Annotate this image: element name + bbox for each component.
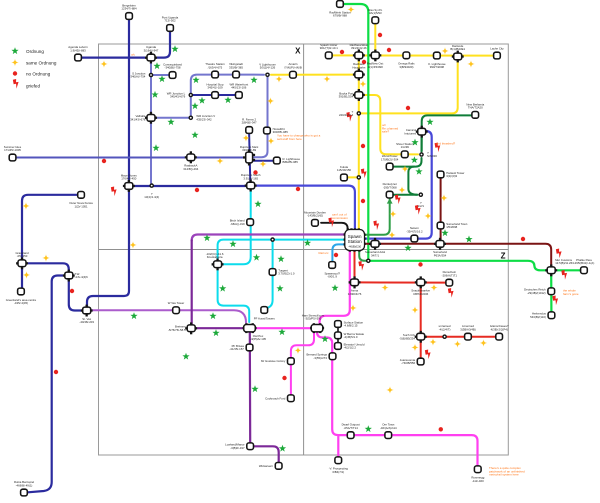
svg-text:345/41/-109: 345/41/-109	[207, 86, 223, 90]
wire: dark green line New Brefamia west then south to Camicol	[422, 115, 472, 151]
legend	[26, 49, 57, 89]
wire: navy line R Farms 2 through Rupinum Mani to Rupinum South	[249, 133, 250, 182]
wire: magenta line Dwarf Outpost and Ore Town east to Rosenegg	[338, 435, 477, 465]
station Wurst/Tower	[381, 154, 399, 170]
junction node on yellow line at Kulula	[357, 175, 362, 180]
svg-text:sell-stuff from here: sell-stuff from here	[277, 137, 302, 141]
wire: cyan line Rupinum South south through Birch Island to Knockaberia	[222, 190, 251, 265]
wire: cyan line Spawn Station west through Knockaberia to Owl Pex	[218, 240, 345, 322]
svg-text:griefed: griefed	[26, 84, 40, 89]
svg-text:990/7/2008: 990/7/2008	[430, 65, 445, 69]
junction node on cyan branch	[270, 237, 275, 242]
svg-text:-3(5)/P5/-595: -3(5)/P5/-595	[305, 317, 322, 321]
station Nelson	[406, 226, 423, 242]
svg-text:-40/48/-203: -40/48/-203	[79, 320, 94, 324]
station Agenda Leborn	[68, 45, 88, 61]
station New Brefamia	[466, 102, 484, 118]
station WR Junction L	[167, 91, 193, 98]
station Summer Isles	[4, 145, 22, 161]
station PF Brissa	[229, 344, 253, 351]
station Knockaberia	[206, 252, 224, 270]
svg-text:3(1)/(0)3: 3(1)/(0)3	[446, 174, 457, 178]
station Sumerland Town	[437, 222, 468, 229]
svg-text:commission: commission	[332, 216, 348, 220]
svg-text:-3(B)0/-197: -3(B)0/-197	[230, 446, 245, 450]
Ordnung markers (green stars)	[11, 45, 472, 451]
svg-text:435/23/-342: 435/23/-342	[196, 117, 212, 121]
no Ordnung markers (red dots)	[13, 33, 525, 432]
station Theatre Station	[205, 62, 225, 78]
svg-text:Z: Z	[501, 252, 506, 261]
wire: yellow line V Lighthouse to Radhaus Hausbahn	[271, 74, 356, 76]
station RaabackA	[183, 151, 198, 171]
svg-text:-340(A)/-754: -340(A)/-754	[129, 75, 145, 79]
svg-text:34/T/1: 34/T/1	[371, 253, 379, 257]
station Asma	[348, 276, 362, 296]
station Dunkelynot	[383, 182, 397, 198]
arrow marker on green line to Dunkelynot	[387, 198, 393, 203]
wire: dark purple link Landend Manor to Wickarsern	[254, 446, 279, 462]
station PF Aussi/Towers	[254, 307, 276, 321]
svg-text:333/4B/-89: 333/4B/-89	[242, 148, 256, 152]
svg-text:CBH/ID/206: CBH/ID/206	[413, 292, 429, 296]
wire: yellow branch Kulula to yellow trunk	[348, 176, 359, 178]
svg-text:-05/-350: -05/-350	[17, 254, 28, 258]
griefed markers (red lightning bolts)	[13, 79, 567, 359]
svg-text:-295/T/368: -295/T/368	[383, 185, 397, 189]
station Turgent	[269, 268, 295, 275]
station Post Uganda	[162, 16, 179, 32]
station W Vax Tower	[168, 301, 185, 314]
svg-text:W Vax Tower: W Vax Tower	[168, 301, 185, 305]
wire: black branch Surface Station to Elevator Unsold	[337, 324, 339, 346]
svg-text:314/B()-494: 314/B()-494	[183, 167, 198, 171]
junction Owl Pex	[243, 323, 267, 341]
svg-text:5/5(1)4/-126: 5/5(1)4/-126	[260, 66, 276, 70]
svg-text:X: X	[295, 47, 301, 56]
station Mace Runes	[121, 173, 138, 192]
station Hospital Stop	[207, 83, 224, 99]
svg-text:170/B(2)/-304: 170/B(2)/-304	[381, 157, 399, 161]
svg-text:-466/B/-49(1): -466/B/-49(1)	[16, 483, 33, 487]
junction Sumerland Adol (green lines meet)	[366, 259, 371, 264]
svg-text:-740/B/556: -740/B/556	[401, 361, 415, 365]
station Consequisland	[163, 63, 182, 79]
svg-text:-4(65)A/-105: -4(65)A/-105	[250, 337, 266, 341]
station unnamed	[439, 324, 451, 339]
station Breimen	[168, 322, 197, 334]
wire: bright green line Sumerland Adol east to Mer Customs and Phalke Pass	[368, 261, 580, 271]
svg-text:THA/T2A20: THA/T2A20	[468, 106, 483, 110]
wire: cyan branch node to Turgent and PF Aussi Towers	[264, 240, 272, 309]
station Graceland	[15, 251, 29, 269]
wire: periwinkle line Uganda south through S Junction and Valhalla	[150, 60, 152, 183]
station RadWerk Station	[329, 1, 351, 18]
svg-text:345/43/-679: 345/43/-679	[170, 95, 186, 99]
wire: periwinkle branch S Junction to Consequisland	[151, 74, 169, 76]
svg-text:-102/(C)/-41.6: -102/(C)/-41.6	[206, 252, 224, 256]
svg-text:0/B4(7/1): 0/B4(7/1)	[332, 470, 344, 474]
svg-text:-4(45)5/1.0: -4(45)5/1.0	[344, 335, 358, 339]
svg-text:341/43/-678: 341/43/-678	[130, 117, 146, 121]
wire: orchid line St. Vax through W Vax Tower to Owl Pex	[91, 310, 246, 322]
wire: sky blue link Spawn Station to Spawnacol	[332, 244, 345, 261]
svg-text:-5/76/76/-58.5: -5/76/76/-58.5	[168, 328, 186, 332]
wire: magenta line Spawn Station south to Ham Sterncil junction	[320, 251, 350, 325]
svg-text:Mr Gustave Colony: Mr Gustave Colony	[261, 359, 286, 363]
station Deutsches Reich	[524, 288, 555, 295]
station Limerned	[460, 324, 476, 340]
svg-text:-41/35/-157: -41/35/-157	[229, 347, 244, 351]
svg-text:Spawn: Spawn	[348, 234, 362, 239]
svg-text:and thrashed?: and thrashed?	[436, 142, 456, 146]
station Vikingstadt	[229, 62, 243, 78]
wire: dark purple line corner south to Breimen	[191, 240, 193, 324]
station Rosenegg	[471, 466, 484, 483]
station Rau Sy-Po	[368, 8, 382, 24]
svg-text:335/B/-385: 335/B/-385	[229, 65, 243, 69]
svg-text:-3(55)A/T4: -3(55)A/T4	[313, 356, 327, 360]
Z coordinate axis (horizontal gridline)	[99, 250, 509, 261]
wire: medium green link Spawn Station to Sumerland Adol junction	[359, 251, 368, 261]
wire: navy line T.W. west then south to Ruina Bernspiel	[28, 276, 66, 493]
wire: navy line Agenda Leborn to Uganda to Post Uganda	[78, 31, 170, 58]
wire: red line Snackhibanker south through Such City to Juansuomia	[420, 286, 422, 358]
svg-text:-435/-4(45): -435/-4(45)	[14, 301, 28, 305]
svg-text:P63A/354: P63A/354	[434, 253, 447, 257]
station Lowland/Manor	[225, 443, 253, 450]
wire: periwinkle line Valhalla to WR Junction V	[151, 117, 191, 119]
svg-text:-46(B)/(2)0: -46(B)/(2)0	[348, 244, 361, 248]
svg-text:Ordnung: Ordnung	[26, 49, 44, 54]
svg-text:-5(6)/B5/254: -5(6)/B5/254	[399, 336, 415, 340]
svg-text:-206/A(T)T1: -206/A(T)T1	[442, 273, 458, 277]
svg-text:1/54/098: 1/54/098	[446, 225, 457, 229]
station Rupinum South	[241, 173, 261, 191]
svg-text:sale?: sale?	[382, 130, 390, 134]
wire: periwinkle line V Lighthouse south to Rupinum Mani	[253, 75, 268, 157]
station V Lighthouse	[259, 62, 276, 77]
svg-text:13(4)/1.4(4): 13(4)/1.4(4)	[144, 195, 159, 199]
station Birch Island	[230, 219, 254, 226]
svg-text:1/A/99: 1/A/99	[401, 145, 410, 149]
svg-text:-340(B)/-758: -340(B)/-758	[165, 66, 181, 70]
svg-text:no Ordnung: no Ordnung	[26, 72, 51, 77]
svg-text:1.9(45)/-883: 1.9(45)/-883	[70, 48, 86, 52]
wire: bright green line RadWerk Station south to Sumerland Adol junction	[343, 4, 368, 258]
station Mr Gustave Colony	[261, 358, 294, 365]
station K. Lighthouse	[428, 52, 446, 69]
station S Junction	[129, 71, 153, 78]
wire: dark green line Dunkelynot east to junction 121	[394, 194, 418, 196]
svg-text:1234/7/-884: 1234/7/-884	[121, 7, 137, 11]
svg-text:3.91/A/-165: 3.91/A/-165	[243, 176, 258, 180]
svg-text:391/2(4)/-46: 391/2(4)/-46	[351, 46, 367, 50]
wire: yellow branch Rau Sy-Po south to RadNew Ost	[374, 24, 376, 52]
svg-text:713/-502: 713/-502	[164, 19, 176, 23]
station Dwarf Outpost	[342, 423, 360, 439]
wire: red line Spawn Station south to Asma	[354, 251, 356, 279]
station W Berns/ Estate	[335, 332, 365, 339]
station Sumerland Adol	[365, 238, 385, 257]
station ?	[144, 183, 159, 199]
station Ore Town	[380, 423, 397, 439]
svg-text:3(B/94020): 3(B/94020)	[399, 65, 413, 69]
svg-text:3A(1)5/93: 3A(1)5/93	[369, 11, 382, 15]
svg-text:same Ordnung: same Ordnung	[26, 61, 57, 66]
wire: dark green link Camicol to green-yellow junction	[421, 135, 423, 152]
svg-text:Rail u/c: Rail u/c	[319, 251, 330, 255]
wire: navy line T.W. down to St. Vax	[69, 278, 83, 311]
svg-text:-0/0/1.9: -0/0/1.9	[327, 275, 337, 279]
svg-text:3(1)/P4/098: 3(1)/P4/098	[368, 65, 383, 69]
svg-text:-143/B(2)/(0): -143/B(2)/(0)	[307, 214, 323, 218]
wire: yellow line junction 240 east then north to Dankode	[361, 60, 458, 113]
svg-text:/163/4/-675: /163/4/-675	[208, 65, 223, 69]
station Mer Customs	[545, 258, 574, 277]
wire: maroon line Spawn Station east to Mer Customs	[365, 244, 551, 267]
station Spawn Dorier	[320, 43, 338, 59]
station Amarin	[284, 62, 302, 78]
svg-text:115/49/156: 115/49/156	[337, 168, 351, 172]
wire: magenta link Owl Pex to Ham Sterncil	[255, 327, 311, 329]
svg-text:3.70/5(2)-1.0: 3.70/5(2)-1.0	[278, 272, 295, 276]
station Such City	[399, 331, 426, 343]
Spawn Station hub	[344, 228, 366, 251]
station R. Farms 2	[242, 118, 257, 134]
station Bucka Port	[339, 89, 365, 101]
station Wickarsern	[259, 463, 282, 470]
svg-text:1(2)/-1051: 1(2)/-1051	[74, 204, 88, 208]
svg-text:176/44/-450: 176/44/-450	[121, 177, 137, 181]
station RadNew Ost:	[367, 50, 384, 69]
svg-text:679/B/-988: 679/B/-988	[333, 14, 347, 18]
station Radhaus	[352, 62, 365, 80]
wire: navy line Mace Runes to Rupinum South	[129, 185, 247, 187]
station -V. Prospecting	[329, 457, 349, 474]
svg-text:3-690/4/76: 3-690/4/76	[348, 292, 362, 296]
wire: red line Asma east to Dunschein	[358, 281, 446, 283]
wire: periwinkle loop WR Junction V up and east to V Lighthouse	[191, 75, 264, 118]
svg-text:Intutunes: Intutunes	[404, 131, 416, 135]
wire: magenta line Ham Sterncil south through Bernard Springs to V Prospecting	[317, 332, 338, 457]
svg-text:Hausbahn: Hausbahn	[352, 65, 365, 69]
svg-text:-4(2/1)2.2: -4(2/1)2.2	[344, 346, 357, 350]
station Sumerland	[433, 238, 447, 257]
svg-text:-111/-460: -111/-460	[472, 479, 484, 483]
station Uganda	[144, 45, 159, 63]
same Ordnung markers (yellow sparkles)	[11, 6, 487, 394]
station WR Junction V	[189, 114, 216, 121]
wire: navy line Bergelsien vertical to Mace Runes to St. Vax	[87, 19, 129, 307]
wire: dark green loop junction 121 west and north	[408, 167, 417, 195]
svg-text:B/B2/B/-085: B/B2/B/-085	[283, 160, 299, 164]
wire: medium green line Spawn Station north to Dunkelynot	[365, 198, 390, 235]
svg-text:543(B)/(110): 543(B)/(110)	[530, 315, 546, 319]
wire: royal blue line Rupinum South to Spawn Station	[254, 186, 355, 229]
station Bernard Springs	[306, 353, 335, 360]
station Rupinum Mani	[240, 145, 259, 166]
wire: navy branch WR Junction L to WR Waterfront	[191, 94, 236, 96]
svg-text:13.5(B)/11.263: 13.5(B)/11.263	[555, 261, 574, 265]
svg-text:Wickarsern: Wickarsern	[259, 464, 274, 468]
wire: royal blue line Spawn Station east to Nelson then north to Camicol	[365, 131, 432, 239]
station Islams/Cases?	[490, 324, 509, 340]
wire: purple line Spawn Station west to corner	[192, 235, 345, 241]
svg-text:/7(4)(P)/-(4)/B: /7(4)(P)/-(4)/B	[284, 65, 302, 69]
svg-text:-05A/T/T14: -05A/T/T14	[344, 426, 359, 430]
station Hostelbht	[264, 127, 289, 134]
wire: navy line Graceland to T.W. junction	[22, 263, 69, 272]
station WR Waterfront	[229, 83, 248, 99]
station Valhalla	[130, 112, 157, 124]
station Mountain Durden	[304, 210, 326, 226]
svg-text:farm's gone: farm's gone	[563, 292, 579, 296]
orange annotations	[131, 53, 579, 477]
station Snackhibanker	[411, 276, 430, 296]
station Dunschein	[442, 270, 458, 286]
station Lache City	[490, 46, 504, 59]
svg-text:445/13/-106: 445/13/-106	[231, 86, 247, 90]
svg-text:-68/A()-319: -68/A()-319	[230, 222, 245, 226]
svg-text:3(164)/-947: 3(164)/-947	[144, 48, 159, 52]
svg-text:Station: Station	[348, 239, 363, 244]
svg-text:391/B1/254: 391/B1/254	[339, 95, 354, 99]
station Hariaut/ Tower	[437, 171, 464, 178]
svg-text:Cockroach Ford: Cockroach Ford	[265, 396, 286, 400]
svg-text:PF Aussi/Towers: PF Aussi/Towers	[254, 316, 276, 320]
station Camicol	[404, 126, 427, 138]
wire: slate line Summer Isles to Rupinum Mani	[15, 157, 245, 159]
station Outer Nova Kurwa	[69, 192, 93, 209]
station Greenland&#x27;s area centre	[6, 288, 37, 305]
station St. Vax	[79, 305, 94, 324]
wire: red line Such City east to Islams Cases	[425, 336, 496, 338]
station Ruina Bernspiel	[14, 480, 34, 496]
junction Ham Sterncil	[302, 313, 325, 333]
station T.W.	[63, 270, 88, 282]
svg-text:-4'A/-4(4)6: -4'A/-4(4)6	[74, 275, 88, 279]
station RadNeueWest	[350, 43, 369, 61]
svg-text:240/41/214: 240/41/214	[339, 113, 354, 117]
svg-text:5/A/330: 5/A/330	[427, 154, 437, 158]
wire: dark purple link Breimen to Owl Pex	[196, 327, 245, 329]
station Bergelsien	[121, 4, 137, 20]
svg-text:2(B4)5/-347: 2(B4)5/-347	[242, 121, 257, 125]
svg-text:-46/(A/A)/114: -46/(A/A)/114	[380, 426, 397, 430]
svg-text:Lache City: Lache City	[490, 46, 504, 50]
wire: bright green line Mer Customs south to Herbendus	[550, 274, 552, 312]
station ?	[419, 151, 437, 158]
svg-text:1/2/1: 1/2/1	[418, 204, 425, 208]
station Spawnacol?	[324, 262, 340, 279]
station Dankode	[450, 44, 465, 62]
wire: yellow line Spawn Dorier to Lache City	[331, 54, 495, 56]
svg-text:u/c: u/c	[131, 53, 136, 57]
station R. Lighthouse	[274, 157, 301, 164]
station Kulula	[337, 165, 351, 181]
svg-text:-35/4(7)/16.2: -35/4(7)/16.2	[406, 229, 423, 233]
wire: black line Mountain Durden to Spawn Station	[321, 223, 348, 230]
wire: yellow line Bucka Port east then south to Shoer Station	[361, 95, 418, 154]
svg-text:3(3B/A3/4B): 3(3B/A3/4B)	[460, 327, 476, 331]
wire: dark purple line Owl Pex south through PF Brissa to Landend Manor	[249, 332, 252, 443]
station ?	[339, 110, 361, 117]
wire: navy branch Rupinum Mani to R. Lighthouse	[253, 160, 273, 162]
wire: dark green line Wurst Tower east up to green-yellow junction	[394, 158, 422, 167]
svg-text:-4.6/B/2.15: -4.6/B/2.15	[344, 324, 358, 328]
wire: magenta branch Ham Sterncil to Mr Gustave Colony and Cockroach Ford	[291, 332, 314, 395]
station Elevator/ Unsold	[335, 342, 365, 349]
svg-text:metro/rail system here: metro/rail system here	[489, 473, 519, 477]
svg-text:-29(4B)/(1012): -29(4B)/(1012)	[527, 291, 546, 295]
wire: maroon line Hariaut Tower south to Sumerland junction	[440, 178, 442, 243]
svg-text:171/45/-1005: 171/45/-1005	[4, 148, 21, 152]
station Shoer Station	[396, 142, 414, 158]
station Surface Station	[335, 320, 364, 327]
station Omega Rails	[398, 52, 415, 69]
X coordinate axis (vertical gridline)	[295, 44, 303, 455]
station ?	[418, 192, 425, 208]
wire: yellow line RadNeueWest south through Bucka Port to Spawn Station	[358, 58, 360, 228]
station Juansuomia	[400, 358, 424, 365]
svg-text:B(1)/B43E1: B(1)/B43E1	[450, 47, 465, 51]
svg-text:-295/(B41)/-1(A): -295/(B41)/-1(A)	[574, 261, 595, 265]
station Herbendus	[530, 312, 555, 319]
svg-text:901/(T)0/-10.1: 901/(T)0/-10.1	[320, 46, 338, 50]
svg-text:-4/(2/4/T): -4/(2/4/T)	[439, 327, 451, 331]
station Phalke Pass	[574, 258, 595, 274]
station Cockroach Ford	[265, 395, 294, 402]
wire: navy line Outer Nova Kurwa to Graceland to Greenland terminus	[22, 195, 78, 288]
svg-text:4(3B)-2/2(P4): 4(3B)-2/2(P4)	[491, 327, 508, 331]
